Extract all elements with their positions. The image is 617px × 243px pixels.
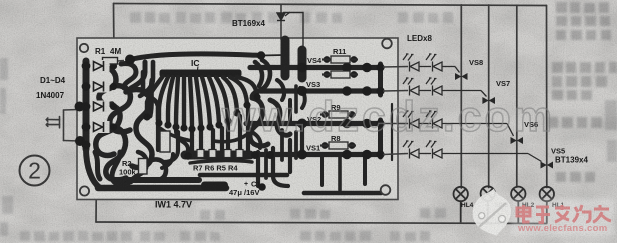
char fa bbox=[555, 205, 570, 222]
maze left of R3 bbox=[156, 122, 160, 150]
maze snake 3 bbox=[96, 106, 120, 156]
triac VS7 bbox=[482, 79, 510, 104]
char shao bbox=[573, 205, 590, 222]
wire left return riser bbox=[95, 201, 97, 223]
triac VS5 bbox=[541, 147, 589, 169]
lamp HL3 bbox=[481, 186, 495, 222]
copper traces bbox=[86, 40, 392, 193]
char zi bbox=[536, 207, 550, 223]
VS row D bbox=[231, 152, 382, 157]
trace left rail bbox=[83, 61, 90, 149]
trace thyristor drop 2 bbox=[298, 50, 307, 78]
vertical bar joining rows C-D bbox=[378, 120, 383, 157]
maze loop left bbox=[126, 90, 152, 168]
trace thyristor drop 1 bbox=[281, 40, 290, 76]
lamp HL4 bbox=[454, 187, 468, 223]
thyristor VS4 row labels bbox=[306, 47, 347, 153]
pads bbox=[75, 51, 385, 191]
diode D2 bbox=[91, 81, 110, 93]
wire left drop to R1 bbox=[113, 4, 116, 59]
IC label bbox=[191, 58, 200, 70]
maze vertical mid bbox=[143, 72, 158, 120]
resistor R8 bbox=[329, 142, 348, 149]
resistor R1 bbox=[95, 47, 124, 64]
LED rows bbox=[403, 54, 542, 162]
LED row 2 (pair) bbox=[403, 78, 487, 97]
trace bottom run 3 bbox=[200, 175, 381, 193]
wire vertical branch 3 bbox=[516, 5, 518, 187]
maze snake 1 bbox=[97, 66, 116, 104]
hole bottom-left bbox=[80, 186, 89, 195]
IC legs bbox=[147, 76, 257, 128]
resistor R2 bbox=[119, 159, 147, 177]
maze lower-left fill bbox=[95, 152, 100, 179]
triac VS8 bbox=[455, 58, 483, 80]
VS row B bbox=[256, 88, 382, 93]
diode D1 bbox=[91, 60, 110, 72]
wire vertical branch 4 bbox=[546, 6, 548, 188]
trace mid cluster bbox=[176, 130, 188, 156]
LED row 3 (pair) bbox=[403, 111, 514, 136]
hole top-right bbox=[382, 39, 392, 49]
SCR BT169 bbox=[232, 5, 303, 51]
label D1~D4 1N4007 bbox=[36, 76, 66, 100]
wire vertical branch 2 bbox=[488, 5, 490, 188]
hole top-left bbox=[80, 44, 88, 52]
IC bar bbox=[160, 70, 242, 78]
char you bbox=[593, 205, 611, 222]
VS row A bbox=[250, 65, 382, 70]
maze block upper-left bbox=[121, 63, 136, 88]
maze below row D right bbox=[320, 157, 324, 185]
maze hook right of R2 bbox=[150, 159, 166, 180]
lamp labels bbox=[461, 202, 565, 209]
board outline bbox=[77, 38, 398, 200]
char dian bbox=[517, 205, 530, 222]
capacitor C1 body bbox=[201, 182, 228, 191]
triac VS6 bbox=[511, 120, 539, 144]
diode D4 bbox=[91, 121, 110, 133]
wire bottom return bus bbox=[96, 222, 547, 224]
mounting holes bbox=[80, 39, 392, 196]
wire top mains bus bbox=[114, 4, 547, 6]
trace bottom run 1 bbox=[114, 177, 199, 183]
mains plug bbox=[46, 110, 79, 142]
maze snake 2 bbox=[110, 86, 131, 132]
trace right cluster bbox=[250, 98, 268, 146]
VS row C bbox=[246, 121, 382, 126]
maze snake 4 bbox=[106, 127, 126, 180]
LED row 1 (pair) bbox=[403, 54, 460, 73]
vertical bar joining rows A-B bbox=[378, 64, 383, 95]
trace R1 feed bbox=[130, 54, 261, 60]
index circled 2 bbox=[20, 156, 50, 186]
elecfans leaf logo bbox=[473, 189, 511, 236]
elecfans red wordmark bbox=[511, 199, 614, 235]
capacitor C1 labels bbox=[229, 180, 261, 198]
LED row 4 (pair) bbox=[403, 141, 542, 162]
lamp HL2 bbox=[511, 187, 525, 223]
trace bottom run 2 bbox=[98, 185, 226, 192]
resistor R10 bbox=[331, 71, 350, 78]
resistors R7 R6 R5 R4 bbox=[193, 150, 243, 173]
band behind R4-R7 bbox=[185, 151, 250, 160]
edge trace bbox=[391, 104, 393, 160]
hole bottom-right bbox=[381, 185, 391, 195]
diode D3 bbox=[91, 101, 110, 113]
resistor R9 bbox=[329, 111, 348, 118]
wires PCB to LED rows bbox=[383, 67, 408, 155]
trace to VS row pads bbox=[300, 68, 305, 79]
lamp HL1 bbox=[540, 187, 554, 223]
wire vertical branch 1 bbox=[460, 5, 462, 188]
resistor R11 bbox=[331, 56, 350, 63]
resistor R3 body bbox=[160, 131, 170, 152]
